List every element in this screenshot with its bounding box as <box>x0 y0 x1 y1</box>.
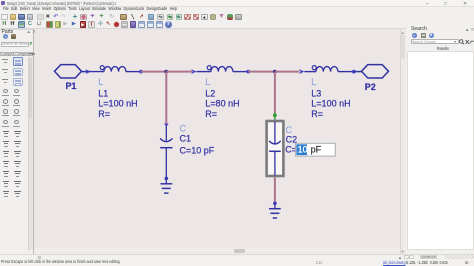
svg-text:P2: P2 <box>365 82 376 92</box>
inductor L2 <box>207 66 250 74</box>
port P1 <box>55 65 87 78</box>
svg-text:R=: R= <box>311 109 323 119</box>
wire L2 to node2 <box>248 71 275 73</box>
svg-text:R=: R= <box>205 109 217 119</box>
labels C2 <box>285 125 297 155</box>
svg-text:L=100 nH: L=100 nH <box>98 99 137 109</box>
labels C1 <box>180 124 215 156</box>
ground of C1 <box>160 177 172 194</box>
inductor L3 <box>312 66 355 74</box>
svg-text:L2: L2 <box>205 88 215 98</box>
svg-text:C=10 pF: C=10 pF <box>180 146 215 156</box>
svg-text:L: L <box>205 77 210 87</box>
capacitor C1 <box>160 127 172 179</box>
labels L1 <box>98 77 137 119</box>
svg-text:L1: L1 <box>98 88 108 98</box>
wire C2 to ground <box>274 177 276 203</box>
wire L3-P2 <box>354 71 362 73</box>
svg-text:pF: pF <box>311 145 322 155</box>
green highlighted pin segment <box>273 113 277 121</box>
wire node2-L3 <box>275 69 316 74</box>
wire node1 to C1 <box>164 72 169 128</box>
svg-text:L=100 nH: L=100 nH <box>311 99 350 109</box>
value edit box C2 <box>296 143 336 156</box>
wire node1-L2 <box>166 69 211 74</box>
svg-text:C: C <box>180 124 187 134</box>
labels L3 <box>311 77 350 119</box>
svg-text:L: L <box>311 77 316 87</box>
wire node2 to C2 <box>274 72 276 113</box>
svg-text:L: L <box>98 77 103 87</box>
svg-text:C: C <box>286 125 293 135</box>
node junction1 <box>164 70 168 74</box>
svg-text:C1: C1 <box>180 134 192 144</box>
svg-text:10: 10 <box>298 145 308 155</box>
wire P1-L1 <box>85 69 104 74</box>
svg-text:R=: R= <box>98 109 110 119</box>
svg-text:L3: L3 <box>311 88 321 98</box>
capacitor C2 <box>269 122 281 176</box>
selection box around C2 <box>267 121 284 176</box>
port P2 <box>362 65 389 78</box>
ground of C2 <box>269 202 281 219</box>
labels L2 <box>205 77 239 119</box>
inductor L1 <box>100 66 143 74</box>
svg-text:L=80 nH: L=80 nH <box>205 99 239 109</box>
node junction2 <box>273 70 277 74</box>
wire L1 to node1 <box>141 71 166 73</box>
svg-text:P1: P1 <box>66 81 77 91</box>
